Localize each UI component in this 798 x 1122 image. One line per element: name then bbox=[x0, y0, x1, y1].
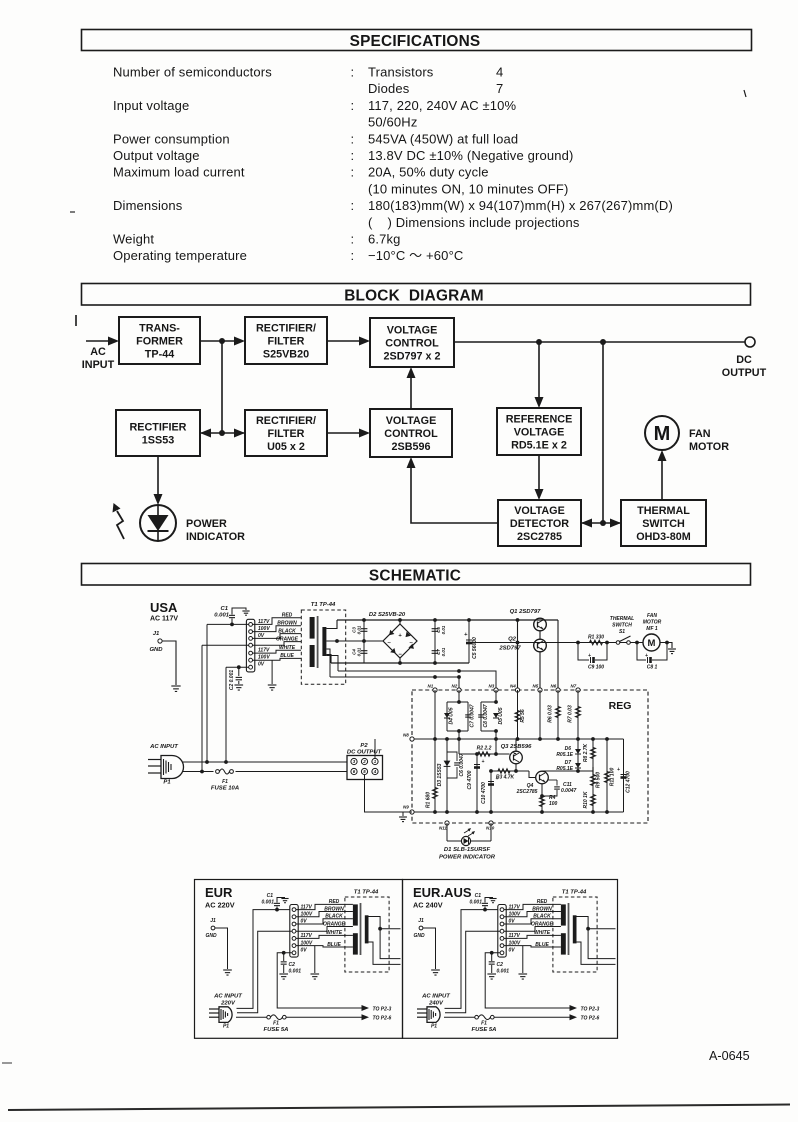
EUR.AUS box capacitor C1 0.001 bbox=[469, 893, 496, 911]
svg-text:DC OUTPUT: DC OUTPUT bbox=[347, 750, 383, 756]
wire rectifier 1SS53 to rectifier/filter U05 (double arrow) bbox=[200, 429, 245, 438]
svg-text:BLUE: BLUE bbox=[280, 653, 294, 659]
capacitor C8 0.0047 with D5 pair bbox=[478, 700, 504, 733]
transistor Q2 2SD797 bbox=[534, 639, 547, 652]
svg-text:R1 680: R1 680 bbox=[426, 792, 432, 808]
svg-text:Input voltage: Input voltage bbox=[113, 98, 189, 113]
svg-text:D3 1SS53: D3 1SS53 bbox=[437, 763, 443, 786]
wire Q4 collector to R9 junction bbox=[542, 765, 593, 775]
wire plug through fuse F1 bbox=[183, 770, 347, 774]
wire J1 to ground bbox=[162, 641, 176, 685]
svg-text:REG: REG bbox=[609, 700, 632, 712]
EUR box riser plug to ORANGE bbox=[237, 931, 292, 1013]
svg-text:AC INPUT: AC INPUT bbox=[149, 744, 179, 750]
svg-text:4: 4 bbox=[496, 65, 503, 80]
svg-text:FAN: FAN bbox=[647, 613, 657, 619]
svg-text:0.01: 0.01 bbox=[441, 625, 446, 634]
svg-text:F1: F1 bbox=[481, 1021, 487, 1027]
svg-text:MF 1: MF 1 bbox=[646, 626, 658, 632]
svg-text:2SC2785: 2SC2785 bbox=[517, 531, 562, 543]
svg-text:BROWN: BROWN bbox=[532, 906, 552, 912]
wire N8 output rail bbox=[412, 737, 624, 741]
svg-text:MOTOR: MOTOR bbox=[689, 441, 729, 453]
svg-text::: : bbox=[351, 148, 355, 163]
svg-text:SPECIFICATIONS: SPECIFICATIONS bbox=[350, 33, 481, 50]
svg-text:C7 0.0047: C7 0.0047 bbox=[470, 704, 476, 727]
svg-text:0.001: 0.001 bbox=[261, 900, 274, 906]
EUR box riser plug to 117V bbox=[237, 910, 291, 1009]
EUR.AUS box transformer T1 dashed box bbox=[553, 897, 597, 972]
svg-text:1SS53: 1SS53 bbox=[142, 434, 174, 446]
svg-text:0.01: 0.01 bbox=[357, 625, 362, 634]
svg-text:WHITE: WHITE bbox=[534, 930, 551, 936]
EUR box label T1 TP-44 bbox=[354, 890, 379, 896]
svg-text:+: + bbox=[617, 767, 620, 773]
wire 1SS53 down to power indicator LED bbox=[154, 456, 163, 505]
svg-text:C1: C1 bbox=[220, 606, 228, 612]
svg-text:D4 U05: D4 U05 bbox=[449, 707, 455, 724]
svg-text:M: M bbox=[654, 423, 671, 445]
svg-text:Number of semiconductors: Number of semiconductors bbox=[113, 65, 272, 80]
wire voltage detector to thermal switch (double arrow) bbox=[581, 519, 621, 528]
wire transformer to rectifier/filter S25VB20 bbox=[200, 337, 245, 346]
wire detector feedback to 2SB596 bbox=[407, 457, 499, 523]
EUR box transformer primary windings bbox=[353, 904, 358, 954]
EUR box wire 0V to P2-3 bbox=[277, 953, 369, 1011]
capacitor C9 100 loop bbox=[578, 643, 607, 671]
svg-text:POWER INDICATOR: POWER INDICATOR bbox=[439, 855, 496, 861]
EUR.AUS box label T1 TP-44 bbox=[562, 890, 587, 896]
svg-text:S1: S1 bbox=[619, 629, 625, 635]
svg-text:FORMER: FORMER bbox=[136, 335, 183, 347]
wire junction vertical bbox=[219, 341, 225, 436]
svg-text:+: + bbox=[482, 759, 485, 765]
LED D1 power indicator bbox=[447, 828, 491, 846]
svg-text:Dimensions: Dimensions bbox=[113, 198, 183, 213]
svg-text:117, 220, 240V AC ±10%: 117, 220, 240V AC ±10% bbox=[368, 98, 517, 113]
mid rail to fan bbox=[471, 641, 643, 645]
wire 0V rail to N2 bbox=[330, 675, 461, 690]
specifications table bbox=[113, 65, 673, 264]
svg-text:0.001: 0.001 bbox=[497, 969, 510, 975]
svg-text:R11 100: R11 100 bbox=[610, 768, 616, 787]
wire rail down to reference voltage bbox=[535, 342, 544, 408]
svg-text:SWITCH: SWITCH bbox=[612, 623, 632, 629]
ground under terminals bbox=[268, 660, 277, 690]
svg-text:VOLTAGE: VOLTAGE bbox=[514, 426, 565, 438]
svg-text:Weight: Weight bbox=[113, 232, 154, 247]
block VOLTAGE CONTROL 2SB596 bbox=[370, 409, 452, 457]
svg-text:N2: N2 bbox=[452, 684, 458, 689]
fan motor MF1 bbox=[643, 634, 660, 651]
node row N1-N7 bbox=[428, 684, 581, 693]
bridge connections bbox=[364, 620, 400, 663]
wire U05 to voltage control 2SB596 bbox=[327, 429, 370, 438]
section header box BLOCK DIAGRAM bbox=[82, 284, 751, 306]
wire P2 pin1 to N8 bbox=[374, 739, 376, 758]
svg-text:2SC2785: 2SC2785 bbox=[516, 789, 538, 795]
svg-text:C2 0.001: C2 0.001 bbox=[229, 670, 235, 691]
wire DC output rail bbox=[454, 339, 745, 345]
svg-text:R10 1K: R10 1K bbox=[583, 791, 589, 808]
svg-text:RECTIFIER: RECTIFIER bbox=[130, 421, 187, 433]
svg-text:TO P2-6: TO P2-6 bbox=[581, 1016, 600, 1022]
svg-text:DC: DC bbox=[736, 354, 752, 366]
svg-text:RED: RED bbox=[282, 613, 293, 619]
EUR box transformer T1 dashed box bbox=[345, 897, 389, 972]
svg-text:Operating temperature: Operating temperature bbox=[113, 248, 247, 263]
EUR.AUS box label AC INPUT bbox=[421, 994, 451, 1007]
capacitor C6 0.01 bbox=[432, 620, 446, 663]
EUR box connector J1 GND bbox=[205, 918, 217, 939]
svg-text:BLACK: BLACK bbox=[325, 914, 343, 920]
svg-text:RED: RED bbox=[537, 899, 548, 905]
svg-text:R3 4.7K: R3 4.7K bbox=[496, 775, 515, 781]
transistor Q3 2SB596 bbox=[510, 751, 523, 764]
EUR.AUS box label TO P2-6 bbox=[581, 1016, 600, 1022]
REG bottom rail bbox=[412, 810, 624, 814]
label Q1 2SD797 bbox=[510, 609, 542, 615]
svg-text:R9 500: R9 500 bbox=[596, 772, 602, 788]
block VOLTAGE DETECTOR 2SC2785 bbox=[498, 500, 581, 546]
svg-text:~: ~ bbox=[387, 641, 391, 647]
svg-text:CONTROL: CONTROL bbox=[384, 428, 438, 440]
EUR.AUS box label TO P2-3 bbox=[581, 1007, 600, 1013]
wire N1 column R1 680 bbox=[426, 690, 438, 812]
EUR box transformer secondary winding bbox=[365, 915, 369, 943]
wire AC input with arrow bbox=[82, 337, 119, 372]
capacitor C5 56000 bbox=[464, 620, 478, 663]
svg-text:Maximum load current: Maximum load current bbox=[113, 165, 245, 180]
svg-text:SCHEMATIC: SCHEMATIC bbox=[369, 568, 461, 585]
svg-text:13.8V DC ±10% (Negative ground: 13.8V DC ±10% (Negative ground) bbox=[368, 148, 573, 163]
svg-text:N8: N8 bbox=[403, 733, 409, 738]
block REFERENCE VOLTAGE RD5.1E x 2 bbox=[497, 408, 581, 455]
svg-text:P1: P1 bbox=[223, 1024, 229, 1030]
svg-text:50/60Hz: 50/60Hz bbox=[368, 115, 417, 130]
bridge symbols bbox=[387, 630, 414, 658]
svg-text:TO P2-6: TO P2-6 bbox=[373, 1016, 392, 1022]
transformer secondary leads bbox=[326, 620, 364, 677]
svg-text:DETECTOR: DETECTOR bbox=[510, 518, 569, 530]
svg-text:CONTROL: CONTROL bbox=[385, 337, 439, 349]
EUR box plug P1 bbox=[209, 1007, 232, 1030]
svg-text:VOLTAGE: VOLTAGE bbox=[386, 415, 437, 427]
svg-text:2SD797 x 2: 2SD797 x 2 bbox=[383, 350, 440, 362]
capacitor C4 0.01 bbox=[352, 639, 368, 656]
svg-text:J1: J1 bbox=[418, 918, 424, 924]
label REG bbox=[609, 700, 632, 712]
EUR.AUS box primary stepped wires with color labels bbox=[504, 899, 561, 948]
block TRANSFORMER TP-44 bbox=[119, 317, 200, 364]
svg-text:RECTIFIER/: RECTIFIER/ bbox=[256, 322, 316, 334]
svg-text:0.0047: 0.0047 bbox=[561, 788, 577, 794]
svg-text:GND: GND bbox=[149, 647, 163, 653]
svg-text:RD5.1E x 2: RD5.1E x 2 bbox=[511, 439, 567, 451]
EUR.AUS box label F1 FUSE bbox=[472, 1021, 497, 1034]
capacitor C1 0.001 bbox=[214, 606, 249, 626]
EUR.AUS box riser plug to 117V bbox=[445, 910, 499, 1009]
svg-text:C9 100: C9 100 bbox=[588, 665, 604, 671]
EUR.AUS box ground J1 bbox=[431, 970, 440, 975]
svg-text:0.001: 0.001 bbox=[214, 613, 229, 619]
diodes D6 D7 R05.1E bbox=[556, 739, 593, 773]
svg-text:545VA (450W) at full load: 545VA (450W) at full load bbox=[368, 131, 518, 146]
svg-text:FUSE 5A: FUSE 5A bbox=[264, 1027, 289, 1033]
capacitor C8 1 loop bbox=[637, 641, 669, 671]
capacitor C2 0.001 bbox=[229, 665, 243, 690]
section header box SCHEMATIC bbox=[82, 564, 751, 586]
label Q4 2SC2785 bbox=[516, 783, 538, 795]
svg-text:EUR.AUS: EUR.AUS bbox=[413, 885, 472, 900]
transistor Q1 2SD797 bbox=[534, 618, 547, 631]
svg-text:6.7kg: 6.7kg bbox=[368, 232, 401, 247]
svg-text:BLACK: BLACK bbox=[533, 914, 551, 920]
svg-text:OHD3-80M: OHD3-80M bbox=[636, 531, 691, 543]
svg-text:C12 4700: C12 4700 bbox=[626, 771, 632, 793]
svg-text:FUSE 5A: FUSE 5A bbox=[472, 1027, 497, 1033]
EUR box label AC INPUT bbox=[213, 994, 243, 1007]
EUR.AUS box capacitor C2 0.001 bbox=[487, 951, 509, 979]
ground J1 bbox=[171, 686, 180, 691]
svg-text:N1: N1 bbox=[428, 684, 434, 689]
EUR.AUS box plug P1 bbox=[417, 1007, 440, 1030]
wire thermal switch to fan motor bbox=[658, 450, 667, 500]
node N8 bbox=[403, 733, 414, 742]
label D1 SLB-1SURSF POWER INDICATOR bbox=[439, 847, 496, 861]
svg-text:TO P2-3: TO P2-3 bbox=[373, 1007, 392, 1013]
EUR.AUS box transformer secondary winding bbox=[573, 915, 577, 943]
svg-text:( ) Dimensions include proj: ( ) Dimensions include projections bbox=[368, 215, 580, 230]
label POWER INDICATOR bbox=[186, 518, 245, 543]
plug P1 bbox=[148, 756, 184, 786]
svg-text:C9 4700: C9 4700 bbox=[467, 770, 473, 789]
svg-text:AC INPUT: AC INPUT bbox=[421, 994, 451, 1000]
EUR.AUS box transformer primary windings bbox=[561, 904, 566, 954]
svg-text:T1 TP-44: T1 TP-44 bbox=[354, 890, 379, 896]
svg-text:R8 2.7K: R8 2.7K bbox=[583, 743, 589, 762]
block VOLTAGE CONTROL 2SD797 x 2 bbox=[370, 318, 454, 367]
resistor R10 1K bbox=[583, 791, 595, 808]
label P2 DC OUTPUT bbox=[347, 743, 383, 756]
diode D3 1SS53 bbox=[437, 739, 450, 812]
svg-text:C6 0.0047: C6 0.0047 bbox=[459, 753, 465, 776]
svg-text:M: M bbox=[648, 638, 656, 649]
resistor R5 56 bbox=[515, 690, 526, 739]
EUR box label TO P2-3 bbox=[373, 1007, 392, 1013]
svg-text:FILTER: FILTER bbox=[268, 428, 305, 440]
svg-text:ORANGE: ORANGE bbox=[323, 921, 346, 927]
EUR.AUS box fuse F1 and wire to P2-6 bbox=[444, 1014, 577, 1020]
svg-text:P2: P2 bbox=[360, 743, 368, 749]
EUR box secondary leads bbox=[369, 917, 401, 965]
svg-text:100: 100 bbox=[549, 801, 558, 807]
svg-text:0.01: 0.01 bbox=[441, 647, 446, 656]
EUR.AUS box terminal strip bbox=[498, 905, 506, 958]
EUR box title bbox=[205, 885, 235, 910]
EUR box ground under terminals bbox=[310, 946, 319, 979]
svg-text:0.001: 0.001 bbox=[289, 969, 302, 975]
svg-text:ORANGE: ORANGE bbox=[276, 636, 299, 642]
EUR.AUS box wire 0V to P2-3 bbox=[485, 953, 577, 1011]
wire N3 column bbox=[495, 690, 497, 754]
svg-text::: : bbox=[351, 98, 355, 113]
EUR box label TO P2-6 bbox=[373, 1016, 392, 1022]
block RECTIFIER/FILTER S25VB20 bbox=[245, 317, 327, 364]
terminal voltage labels bbox=[258, 619, 270, 668]
fuse F1 bbox=[211, 769, 239, 792]
svg-text:Output voltage: Output voltage bbox=[113, 148, 200, 163]
svg-text:C2: C2 bbox=[497, 962, 504, 968]
svg-text:BLOCK DIAGRAM: BLOCK DIAGRAM bbox=[344, 288, 484, 305]
wire 0V rail to N3 bbox=[338, 669, 496, 690]
EUR.AUS box riser plug to ORANGE bbox=[445, 931, 500, 1013]
EUR.AUS box transformer core bbox=[568, 903, 570, 955]
wire P2 pin5 to N9 rail bbox=[365, 775, 413, 812]
connector J1 GND bbox=[149, 631, 163, 653]
label AC INPUT bbox=[149, 744, 179, 750]
svg-text:FUSE 10A: FUSE 10A bbox=[211, 786, 239, 792]
EUR box terminal voltage labels bbox=[301, 904, 313, 953]
EUR box ground J1 bbox=[223, 970, 232, 975]
svg-text:R7 0.03: R7 0.03 bbox=[568, 705, 574, 723]
EUR box transformer core bbox=[360, 903, 362, 955]
svg-text:C8 0.0047: C8 0.0047 bbox=[483, 704, 489, 727]
transformer T1 core bbox=[317, 616, 319, 668]
svg-text:THERMAL: THERMAL bbox=[610, 616, 634, 622]
svg-text:Transistors: Transistors bbox=[368, 65, 434, 80]
svg-text:R05.1E: R05.1E bbox=[556, 752, 573, 758]
EUR box terminal strip bbox=[290, 905, 298, 958]
svg-text:TO P2-3: TO P2-3 bbox=[581, 1007, 600, 1013]
svg-text:VOLTAGE: VOLTAGE bbox=[514, 505, 565, 517]
svg-text:C1: C1 bbox=[475, 893, 482, 899]
svg-text:BLUE: BLUE bbox=[535, 942, 549, 948]
svg-text:FAN: FAN bbox=[689, 428, 711, 440]
EUR box outline box bbox=[195, 880, 403, 1039]
power indicator LED D bbox=[140, 505, 176, 541]
svg-text:−: − bbox=[398, 652, 402, 658]
resistor R2 2.2 bbox=[459, 739, 510, 756]
svg-text:N10: N10 bbox=[486, 826, 495, 831]
resistor R8 2.7K bbox=[583, 739, 595, 812]
connector P2 bbox=[347, 756, 383, 780]
svg-text:MOTOR: MOTOR bbox=[643, 620, 662, 626]
svg-text:F1: F1 bbox=[273, 1021, 279, 1027]
svg-text:J1: J1 bbox=[210, 918, 216, 924]
svg-text:C8 1: C8 1 bbox=[647, 665, 658, 671]
document number A-0645 bbox=[709, 1049, 750, 1063]
svg-text:4: 4 bbox=[373, 769, 377, 774]
stray apostrophe mark bbox=[744, 90, 746, 97]
svg-text:D2 S25VB-20: D2 S25VB-20 bbox=[369, 612, 406, 618]
wire N4 riser bbox=[516, 620, 520, 690]
svg-text:N3: N3 bbox=[489, 684, 495, 689]
svg-text:F1: F1 bbox=[222, 779, 228, 785]
svg-text:7: 7 bbox=[496, 81, 503, 96]
wire Q3 collector to rail bbox=[515, 739, 517, 751]
label USA AC117V bbox=[150, 600, 178, 623]
EUR.AUS box ground under terminals bbox=[518, 946, 527, 979]
capacitor C6b 0.0047 bbox=[447, 752, 465, 778]
svg-text:RECTIFIER/: RECTIFIER/ bbox=[256, 415, 316, 427]
capacitor C9b 4700 bbox=[467, 752, 485, 812]
capacitor C10 4700 bbox=[481, 769, 499, 812]
svg-text:+: + bbox=[398, 633, 402, 639]
fan motor M bbox=[645, 416, 729, 453]
svg-text::: : bbox=[351, 65, 355, 80]
svg-text:C10 4700: C10 4700 bbox=[481, 782, 487, 804]
resistor R1 330 bbox=[588, 635, 604, 645]
svg-text:Power consumption: Power consumption bbox=[113, 131, 230, 146]
EUR box primary stepped wires with color labels bbox=[296, 899, 353, 948]
svg-text:N6: N6 bbox=[551, 684, 557, 689]
EUR.AUS box secondary leads bbox=[577, 917, 616, 965]
page edge scan line bbox=[8, 1105, 790, 1111]
svg-text:AC 220V: AC 220V bbox=[205, 901, 235, 910]
svg-text:GND: GND bbox=[205, 933, 217, 939]
svg-text:ORANGE: ORANGE bbox=[531, 921, 554, 927]
section header box SPECIFICATIONS bbox=[82, 30, 752, 51]
wire motor to ground bbox=[660, 643, 676, 654]
svg-text:240V: 240V bbox=[428, 1001, 444, 1007]
resistor R9 500 bbox=[591, 772, 602, 788]
svg-text:D5 U05: D5 U05 bbox=[498, 707, 504, 724]
left margin marks bbox=[2, 212, 76, 1063]
svg-text:RED: RED bbox=[329, 899, 340, 905]
EUR box wire J1 to ground bbox=[215, 928, 228, 969]
svg-text:TRANS-: TRANS- bbox=[139, 322, 180, 334]
svg-text:BLACK: BLACK bbox=[278, 628, 296, 634]
LED light arrow bbox=[113, 503, 125, 539]
svg-text:P1: P1 bbox=[431, 1024, 437, 1030]
EUR box fuse F1 and wire to P2-6 bbox=[236, 1014, 369, 1020]
EUR.AUS box outline box bbox=[403, 880, 618, 1039]
block THERMAL SWITCH OHD3-80M bbox=[621, 500, 706, 546]
svg-text:R05.1E: R05.1E bbox=[556, 766, 573, 772]
transformer T1 secondary winding bbox=[322, 627, 326, 656]
block RECTIFIER 1SS53 bbox=[116, 410, 200, 456]
svg-text:FILTER: FILTER bbox=[268, 335, 305, 347]
svg-text:WHITE: WHITE bbox=[326, 930, 343, 936]
svg-text:BLUE: BLUE bbox=[327, 942, 341, 948]
svg-text:R6 0.03: R6 0.03 bbox=[548, 705, 554, 723]
svg-text:Q1 2SD797: Q1 2SD797 bbox=[510, 609, 542, 615]
svg-text:AC INPUT: AC INPUT bbox=[213, 994, 243, 1000]
svg-text:R2 2.2: R2 2.2 bbox=[477, 746, 492, 752]
label FAN MOTOR MF1 bbox=[643, 613, 662, 632]
EUR.AUS box connector J1 GND bbox=[413, 918, 425, 939]
svg-text::: : bbox=[351, 198, 355, 213]
label D2 S25VB-20 bbox=[369, 612, 406, 618]
svg-text:D1 SLB-1SURSF: D1 SLB-1SURSF bbox=[444, 847, 491, 853]
resistor R3 4.7K bbox=[491, 769, 536, 781]
svg-text:INPUT: INPUT bbox=[82, 359, 115, 371]
svg-text:N4: N4 bbox=[510, 684, 516, 689]
svg-text:A-0645: A-0645 bbox=[709, 1049, 750, 1063]
svg-text:N7: N7 bbox=[571, 684, 577, 689]
resistor R11 100 bbox=[605, 739, 616, 812]
svg-text:T1 TP-44: T1 TP-44 bbox=[562, 890, 587, 896]
svg-text:INDICATOR: INDICATOR bbox=[186, 531, 245, 543]
svg-text:2: 2 bbox=[362, 759, 366, 764]
svg-text:2SB596: 2SB596 bbox=[391, 441, 430, 453]
capacitor C3 0.01 bbox=[352, 620, 368, 663]
svg-text:Q2: Q2 bbox=[508, 637, 517, 643]
svg-text::: : bbox=[351, 165, 355, 180]
block RECTIFIER/FILTER U05 x 2 bbox=[245, 410, 327, 456]
primary stepped wires with color labels bbox=[253, 613, 302, 661]
